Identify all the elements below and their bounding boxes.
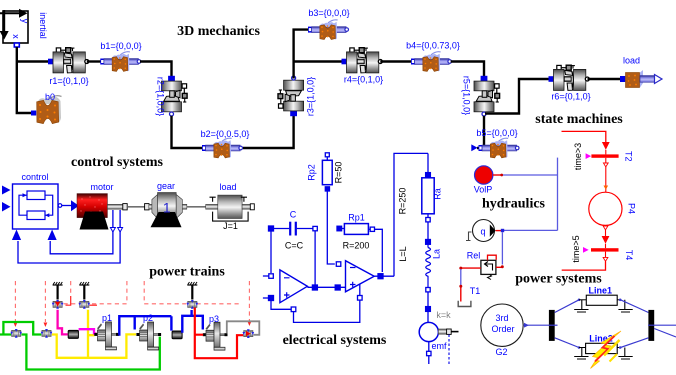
svg-text:T4: T4 [624,250,634,261]
transmission line Line1 [574,295,633,312]
inertia comp lower 1 [10,329,22,338]
wire opamp1 out to opamp2 plus [307,286,345,288]
inertia comp lower 3 [243,329,255,338]
svg-text:state machines: state machines [535,112,623,127]
body b5 [471,144,477,151]
svg-text:p2: p2 [143,313,153,323]
control input arrows [2,186,11,195]
opamp2 U2 [346,261,375,292]
inductor La [426,240,431,245]
wire bus1 to Line2 [555,338,579,348]
svg-text:r6={0,1,0}: r6={0,1,0} [551,92,590,102]
volume VolP [475,166,493,184]
control dashed signal lines [15,281,249,322]
svg-text:time>3: time>3 [573,143,583,170]
wire C-right to Rp1 [337,226,342,231]
wire T2 to place P4 [603,158,608,192]
svg-text:control systems: control systems [71,155,163,170]
capacitor C [273,222,313,236]
svg-text:Rp1: Rp1 [348,213,365,223]
place P4 [589,192,622,225]
red shaft wire [195,308,243,359]
feedback sensor wires [18,210,120,263]
wire G2 to bus1 [523,323,551,328]
transition T4 [591,248,619,251]
resistor Rp2 [322,160,332,184]
yellow shaft wire [52,310,136,358]
revolute joint r4 [342,48,383,73]
svg-text:b3={0,0,0}: b3={0,0,0} [308,8,349,18]
inertia comp lower 2 [41,329,53,338]
hydraulic line vertical [557,158,559,231]
wire Line1 to bus2 [621,300,649,313]
wire r5 to r6 [485,79,551,114]
wire r3 node to b3 and r4 [294,30,342,79]
svg-text:r4={0,1,0}: r4={0,1,0} [344,75,383,85]
svg-text:R=250: R=250 [398,188,408,215]
svg-text:3D mechanics: 3D mechanics [177,24,260,39]
transition T2 [591,154,618,157]
bearing mount 1 [53,282,63,285]
dashed line arrowheads [14,323,18,328]
relief valve Rel [481,255,504,279]
body b4 [411,52,452,72]
svg-text:hydraulics: hydraulics [482,197,546,212]
svg-text:r5={1,0,0}: r5={1,0,0} [462,76,472,115]
svg-text:VolP: VolP [474,185,493,195]
svg-text:motor: motor [90,182,113,192]
revolute joint r1 [48,48,89,73]
wire r2 to b2 [172,116,203,148]
wire r1 to b1 [87,60,101,62]
svg-text:y: y [20,19,30,24]
svg-text:L=L: L=L [398,246,408,261]
svg-text:x: x [11,34,21,39]
svg-text:P4: P4 [627,203,637,214]
svg-text:R=50: R=50 [334,162,344,184]
svg-text:b2={0,0.5,0}: b2={0,0.5,0} [201,129,250,139]
svg-text:Rel: Rel [467,251,481,261]
svg-text:k=k: k=k [436,310,451,320]
body b1 [100,52,141,72]
svg-text:p1: p1 [102,313,112,323]
svg-text:r1={0,1,0}: r1={0,1,0} [49,76,88,86]
wire out of T4 [562,252,608,271]
revolute joint r3 (flipped) [278,76,304,116]
brake actuator upper 3 [187,300,199,309]
gray shaft wire [227,321,259,335]
svg-text:gear: gear [157,181,175,191]
svg-text:power systems: power systems [515,272,602,287]
wire r5 to b5 [477,116,484,148]
svg-text:1: 1 [163,200,171,216]
revolute joint r2 [162,76,188,116]
body b0 [31,96,62,124]
wire C-left to opamp1 minus [270,231,272,273]
wire r6 to load [588,78,621,80]
clutch p2 [136,322,161,350]
opamp1 U1 [280,270,308,303]
wire C-right down to opamp1 output [314,231,316,285]
wire b2 to r3 [243,116,294,148]
svg-text:time>5: time>5 [571,235,581,262]
svg-text:T2: T2 [624,151,634,162]
svg-text:Line1: Line1 [589,286,613,296]
svg-text:Ra: Ra [433,188,443,200]
svg-text:La: La [432,249,442,259]
transmission line Line2 [574,343,633,359]
control bottom feedback arrows [12,230,21,241]
idler gear 1 [68,330,78,338]
controller block control [13,184,59,229]
tank T1 [458,301,471,307]
svg-text:J=1: J=1 [223,221,238,231]
opamp2 output node [374,275,394,277]
svg-text:r2={1,0,0}: r2={1,0,0} [156,77,166,116]
svg-text:load: load [219,182,236,192]
brake actuator upper 2 [79,300,91,309]
body b2 [202,138,243,158]
wire pump to valve [501,232,503,264]
motor [77,194,109,230]
emf shaft [438,329,447,334]
wire b4 to r5 [451,62,484,80]
idler gear 2 [172,331,182,339]
wire b1 to r2 [140,62,172,80]
svg-text:3rd: 3rd [495,313,508,323]
gearbox gear [151,193,187,228]
svg-text:electrical systems: electrical systems [283,333,387,348]
wire Line2 to bus2 [621,338,649,348]
inertia load [206,195,255,221]
body load (box) [620,70,662,88]
svg-text:inertial: inertial [38,12,48,39]
node C-left [269,226,274,231]
svg-text:T1: T1 [470,286,481,296]
wire VolP to line [493,174,558,177]
wire inertial to r1 and b0 [17,47,48,113]
svg-text:C=C: C=C [285,241,304,251]
wire valve to tank T1 [459,267,481,302]
wire into transition T2 [562,131,606,142]
bearing mount 3 [187,282,197,285]
svg-text:b4={0,0.73,0}: b4={0,0.73,0} [406,41,460,51]
resistor branch R=250 [394,153,428,276]
generator G2 [481,304,523,346]
revolute joint r6 [549,65,590,90]
world frame inertial [0,9,30,47]
wire control to motor [58,204,62,208]
svg-text:load: load [623,56,640,66]
green shaft wire [0,322,160,370]
body b3 [308,20,349,40]
svg-text:Order: Order [491,324,514,334]
emf support dashed line [448,335,450,366]
opamp1 feedback wire [271,301,291,310]
svg-text:p3: p3 [209,314,219,324]
shaft motor-gear [107,204,153,210]
resistor Rp1 [344,224,368,235]
svg-text:power trains: power trains [149,265,225,280]
svg-text:G2: G2 [495,347,507,357]
lightning fault on Line2 [591,331,622,369]
bus bar B1 [549,310,555,341]
wire P4 to T4 [602,226,610,248]
svg-text:q: q [480,227,485,237]
svg-text:control: control [21,172,48,182]
bearing mount 2 [79,282,89,285]
svg-text:b5={0,0,0}: b5={0,0,0} [476,128,517,138]
clutch p3 [203,322,228,350]
svg-text:r3={1,0,0}: r3={1,0,0} [306,77,316,116]
svg-text:b0: b0 [45,92,55,102]
svg-text:Rp2: Rp2 [307,164,317,181]
wire bus1 to Line1 [555,300,579,313]
svg-text:C: C [290,210,297,220]
wire pump to line [503,229,558,231]
node C-right [313,226,317,230]
demux arrowheads on sensor wires [110,228,115,233]
svg-text:emf: emf [431,341,447,351]
svg-text:R=200: R=200 [343,241,370,251]
clutch p1 [94,322,119,350]
emf machine [419,322,438,341]
wire La to emf [427,292,429,323]
wire Rp1 to opamp2 output node [375,229,383,272]
revolute joint r5 [474,76,500,116]
blue shaft wires [118,310,203,335]
bus bar B2 [648,310,654,341]
svg-text:b1={0,0,0}: b1={0,0,0} [100,41,141,51]
wire Rp2 to opamp2 minus [327,191,335,264]
wire r4 to b4 [380,60,411,62]
brake actuator upper 1 [52,300,64,309]
resistor Ra [427,153,429,177]
magenta shaft wire [58,310,68,335]
pump q [466,220,504,242]
shaft gear-load [187,206,206,208]
